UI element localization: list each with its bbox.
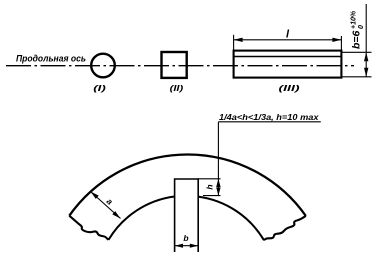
extension line right for dimension l [340, 36, 342, 51]
inner arc right part [198, 197, 264, 241]
svg-text:b: b [183, 233, 188, 243]
left break (wavy line) [69, 216, 108, 240]
svg-text:h: h [205, 184, 215, 189]
leader + dimension line h (vertical) [217, 122, 219, 196]
note shelf line [218, 121, 320, 123]
arrowhead l right [332, 38, 341, 42]
arrowhead b left [175, 244, 183, 248]
dimension line l [234, 39, 342, 41]
extension line left for dimension l [233, 35, 235, 51]
svg-text:1/4a<h<1/3a, h=10 max: 1/4a<h<1/3a, h=10 max [219, 113, 319, 122]
svg-text:+10%: +10% [351, 10, 358, 29]
circle I (round blank) [91, 54, 115, 78]
centerline (продольная ось) [6, 65, 354, 67]
extension line top for dimension b [341, 51, 371, 53]
dimension line b (vertical, extended up for text) [365, 4, 367, 77]
bar III inner edge line [234, 56, 342, 58]
extension line top for dimension h [197, 178, 220, 180]
svg-text:(III): (III) [279, 83, 300, 93]
dimension line b (bottom width of tenon) [175, 245, 199, 247]
svg-text:b=6: b=6 [351, 30, 363, 49]
arrowhead b down [364, 68, 368, 77]
arrowhead a upper [91, 192, 99, 199]
svg-text:(II): (II) [170, 83, 184, 93]
inner arc left part [109, 197, 175, 240]
arrowhead h down [216, 187, 220, 195]
arrowhead b right [190, 244, 198, 248]
outer arc of segment [69, 154, 305, 215]
dimension line a (across ring section) [91, 192, 121, 219]
extension line bottom for dimension h [203, 195, 221, 197]
arrowhead h up [216, 179, 220, 187]
extension line bottom for dimension b [341, 76, 371, 78]
square II (square blank) [162, 52, 187, 78]
svg-text:l: l [286, 29, 290, 41]
svg-text:0: 0 [358, 25, 365, 29]
arrowhead b up [364, 52, 368, 61]
arrowhead a lower [112, 211, 120, 218]
key tenon rectangle (left side + top + right side, sides extended down) [175, 179, 199, 252]
right break (wavy line) [264, 216, 306, 240]
arrowhead l left [234, 38, 243, 42]
svg-text:(I): (I) [93, 83, 106, 93]
value label b=6 +10% 0 (rotated) [351, 10, 366, 49]
svg-text:Продольная ось: Продольная ось [16, 54, 86, 65]
bar III (flat blank) [234, 51, 342, 78]
